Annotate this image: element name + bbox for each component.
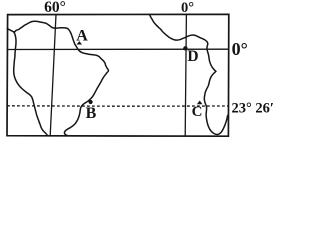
svg-text:B: B xyxy=(86,105,97,122)
svg-text:0°: 0° xyxy=(181,0,194,16)
map frame border xyxy=(7,14,229,136)
point C triangle marker xyxy=(197,101,203,105)
svg-text:C: C xyxy=(192,104,203,120)
point B dot marker xyxy=(89,100,93,104)
equator line xyxy=(7,48,228,50)
South America north+east coastline xyxy=(7,21,108,135)
svg-text:D: D xyxy=(187,48,198,65)
South America west coastline xyxy=(14,32,48,136)
svg-text:A: A xyxy=(76,27,88,44)
Africa coastline xyxy=(150,15,228,135)
svg-text:0°: 0° xyxy=(232,39,248,59)
svg-text:23° 26′: 23° 26′ xyxy=(232,101,275,117)
point A triangle marker xyxy=(77,41,83,44)
point D dot marker xyxy=(183,46,187,50)
tropic of capricorn dashed line xyxy=(7,105,228,107)
meridian 0° line xyxy=(185,15,186,137)
svg-text:60°: 60° xyxy=(44,0,66,16)
meridian 60°W line xyxy=(50,15,56,136)
